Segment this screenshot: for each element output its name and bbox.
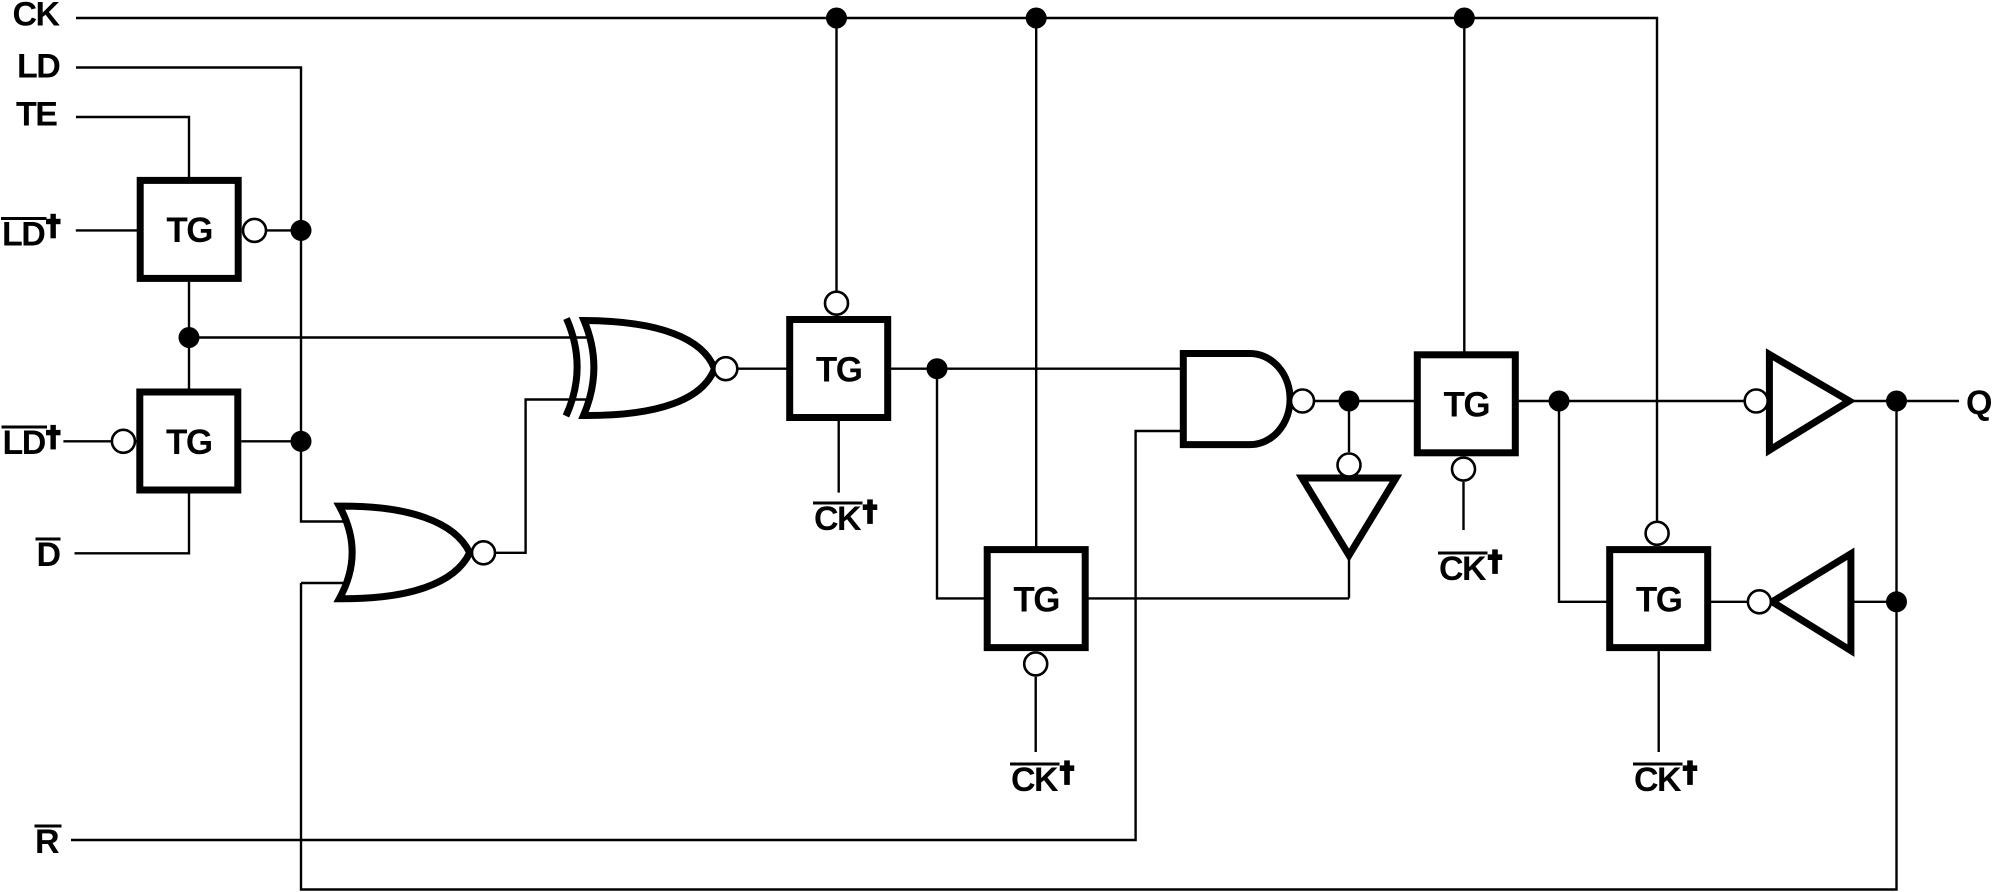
- wire NOR bottom input from feedback: [301, 582, 365, 584]
- wire TG4 output to inverter U1 apex: [1089, 555, 1350, 598]
- bubble TG1 output: [243, 219, 266, 242]
- label CK-bar-dagger under TG3: [813, 499, 877, 538]
- svg-text:LD: LD: [17, 48, 60, 86]
- xnor gate U3 extra input arc: [566, 319, 577, 417]
- wire TE input to TG1 top: [76, 117, 189, 177]
- wire TG1 bottom to TG2 top with tap to XOR top input: [189, 282, 600, 389]
- svg-text:LD: LD: [3, 424, 46, 462]
- wire CK drop to TG5 top: [1463, 18, 1465, 352]
- svg-text:CK: CK: [1439, 550, 1487, 588]
- label CK-bar-dagger under TG6: [1633, 760, 1697, 799]
- junction dot TG1 output on LD bus: [291, 220, 312, 241]
- wire TG5 output branch down to TG6 input: [1559, 401, 1610, 602]
- wire XOR output to TG3: [715, 368, 791, 370]
- wire CK drop to TG4 top: [1035, 18, 1037, 547]
- transmission gate TG3 box: [790, 320, 888, 418]
- bubble TG4 bottom: [1024, 652, 1047, 675]
- xnor gate U3 body: [584, 321, 715, 416]
- svg-text:TG: TG: [816, 350, 862, 389]
- wire TG2 output to LD bus: [241, 440, 301, 442]
- inverter U2 (pointing left): [1772, 554, 1851, 651]
- label CK-bar-dagger under TG4: [1010, 760, 1074, 799]
- wire R-bar net to NAND bottom input: [71, 431, 1190, 840]
- wire NAND output to TG5 input: [1290, 400, 1414, 402]
- wire TG1 output to LD bus: [242, 229, 301, 231]
- wire output inverter to Q: [1849, 400, 1959, 402]
- nand gate U5 body: [1183, 354, 1290, 445]
- nor gate U4 body: [339, 506, 469, 599]
- wire feedback: bottom rail from NOR leg to Q riser: [301, 402, 1897, 890]
- bubble TG2 input: [112, 430, 135, 453]
- bubble NAND U5 output: [1291, 390, 1314, 413]
- wire LD-bar-dagger 1 input to TG1: [76, 229, 140, 231]
- bubble XNOR U3 output: [714, 357, 737, 380]
- svg-text:TG: TG: [166, 211, 212, 250]
- wire TG3 output to NAND top input: [891, 368, 1190, 370]
- wire TG6 bottom to CK-bar label: [1657, 651, 1659, 752]
- bubble inverter U2 input: [1748, 590, 1771, 613]
- wire TG5 output to output inverter bubble: [1519, 400, 1744, 402]
- svg-text:CK: CK: [1634, 761, 1682, 799]
- junction dot NAND output: [1339, 391, 1360, 412]
- junction dot inverter U2 output node: [1886, 591, 1907, 612]
- svg-text:TG: TG: [1636, 580, 1682, 619]
- bubble TG5 bottom: [1452, 458, 1475, 481]
- wire TG3 bottom to CK-bar label: [838, 421, 840, 493]
- bubble inverter U1 input: [1338, 454, 1361, 477]
- label LD-bar-dagger lower: [2, 424, 61, 462]
- bubble TG6 top: [1646, 522, 1669, 545]
- wire TG5 bottom bubble to CK-bar label: [1462, 482, 1464, 530]
- wire LD net: LD input, vertical bus, NOR top input: [76, 68, 365, 522]
- bubble output inverter U6 input: [1745, 390, 1768, 413]
- junction dot CK at TG5 drop: [1454, 8, 1475, 29]
- junction dot Q node: [1886, 391, 1907, 412]
- inverter U1 (pointing down): [1302, 478, 1396, 555]
- junction dot CK at TG4 drop: [1026, 8, 1047, 29]
- label CK-bar-dagger under TG5: [1438, 549, 1502, 588]
- svg-text:Q: Q: [1966, 384, 1992, 422]
- label LD-bar-dagger upper: [1, 214, 61, 254]
- wire CK drop to TG3 top bubble: [835, 18, 837, 291]
- svg-text:CK: CK: [1011, 761, 1059, 799]
- svg-text:D: D: [37, 536, 61, 574]
- transmission gate TG5 box: [1417, 355, 1515, 453]
- svg-text:TG: TG: [166, 423, 212, 462]
- svg-text:TE: TE: [16, 96, 57, 134]
- junction dot TG2 output on LD bus: [291, 431, 312, 452]
- svg-text:TG: TG: [1013, 580, 1059, 619]
- transmission gate TG4 box: [987, 550, 1085, 648]
- wire TG6 output to inverter U2 bubble: [1711, 601, 1747, 603]
- wire NAND output branch to inverter U1 bubble: [1348, 401, 1350, 452]
- svg-text:LD: LD: [2, 216, 45, 254]
- junction dot CK at TG3 drop: [826, 8, 847, 29]
- transmission gate TG1 box: [140, 180, 238, 278]
- bubble TG3 top: [825, 292, 848, 315]
- junction dot between TG1 and TG2: [179, 327, 200, 348]
- wire TG4 bottom bubble to CK-bar label: [1034, 677, 1036, 752]
- output inverter U6 (pointing right): [1769, 354, 1849, 450]
- junction dot TG3 output: [927, 358, 948, 379]
- wire LD-bar-dagger 2 input to TG2 bubble: [63, 440, 137, 442]
- bubble NOR U4 output: [472, 541, 495, 564]
- label D-bar: [36, 536, 61, 574]
- transmission gate TG2 box: [140, 392, 238, 490]
- svg-text:CK: CK: [814, 500, 862, 538]
- junction dot TG5 output: [1549, 391, 1570, 412]
- svg-text:CK: CK: [13, 0, 61, 34]
- wire inverter U2 to Q riser: [1851, 601, 1897, 603]
- wire CK main horizontal and right drop to TG6: [76, 18, 1657, 521]
- wire D-bar input to TG2 bottom: [75, 494, 190, 554]
- svg-text:TG: TG: [1443, 386, 1489, 425]
- wire TG3 output branch down to TG4 input: [937, 369, 984, 599]
- svg-text:R: R: [35, 823, 59, 861]
- wire NOR output to XOR bottom input: [483, 400, 601, 553]
- label R-bar: [35, 823, 62, 861]
- transmission gate TG6 box: [1610, 550, 1708, 648]
